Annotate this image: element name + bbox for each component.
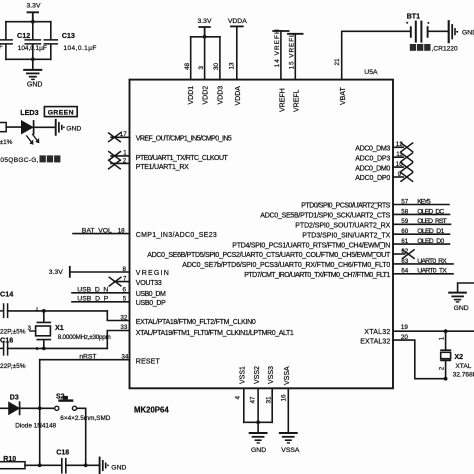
svg-text:34: 34 (121, 353, 129, 360)
svg-text:57: 57 (401, 198, 409, 205)
LED LED3 (20, 108, 39, 145)
svg-text:VREGIN: VREGIN (136, 270, 169, 277)
wire (20, 407, 55, 409)
value 0805QBGC-G (cut at left edge) (0, 155, 60, 164)
node: crystal bottom junction (42, 347, 46, 351)
pin 4 VSS1 (235, 366, 247, 422)
pin 16 VSSA (281, 366, 292, 432)
svg-text:USB0_DP: USB0_DP (136, 300, 166, 307)
svg-text:VDD2: VDD2 (203, 86, 210, 105)
svg-text:30: 30 (213, 62, 220, 70)
pin 6 USB0_DM (123, 287, 166, 298)
svg-text:,CR1220: ,CR1220 (432, 45, 458, 52)
svg-text:VSS2: VSS2 (254, 366, 261, 384)
wire (8, 310, 108, 312)
svg-text:31: 31 (266, 396, 273, 404)
power 3.3V (top-left) (27, 2, 41, 21)
pin 17 VREF_OUT (no connect) (109, 131, 232, 143)
svg-text:62: 62 (401, 248, 409, 255)
svg-text:PTE0/UART1_TX/RTC_CLKOUT: PTE0/UART1_TX/RTC_CLKOUT (136, 155, 229, 162)
wire: bottom rail (6, 58, 51, 60)
svg-text:60: 60 (401, 228, 409, 235)
svg-text:18: 18 (118, 227, 126, 234)
svg-text:ADC0_DM3: ADC0_DM3 (355, 146, 390, 153)
svg-text:61: 61 (401, 238, 409, 245)
capacitor C16 (cut at left edge) (0, 336, 26, 371)
svg-text:32.768KHz: 32.768KHz (453, 371, 474, 378)
pin 32 EXTAL (120, 314, 255, 326)
svg-text:CMP1_IN3/ADC0_SE23: CMP1_IN3/ADC0_SE23 (136, 232, 217, 239)
svg-text:ADC0_SE5B/PTD1/SPI0_SCK/UART2_: ADC0_SE5B/PTD1/SPI0_SCK/UART2_CTS (260, 213, 390, 220)
svg-text:BAT_VOL: BAT_VOL (82, 227, 112, 234)
wire (25, 464, 62, 466)
ground GND (right of LED3, sideways) (56, 120, 82, 135)
wire: VSS tie (244, 421, 272, 423)
pin 33 XTAL (120, 324, 293, 337)
pin 9 ADC0_DP0 (no connect) (355, 171, 412, 182)
svg-text:PTD0/SPI0_PCS0/UART2_RTS: PTD0/SPI0_PCS0/UART2_RTS (301, 203, 390, 210)
svg-text:USB0_DM: USB0_DM (136, 291, 166, 298)
svg-text:C16: C16 (0, 336, 13, 345)
ground GND (below VSS2) (250, 433, 267, 454)
pin 13 VDDA (229, 26, 242, 105)
svg-text:10: 10 (396, 161, 404, 168)
svg-text:8: 8 (123, 266, 127, 273)
wire (8, 347, 108, 349)
pin 12 ADC0_DM3 (no connect) (355, 141, 412, 152)
svg-text:2: 2 (440, 366, 446, 370)
pin 1 PTE0 (no connect) (109, 150, 229, 163)
svg-text:VSS1: VSS1 (240, 366, 247, 384)
switch S2 (55, 393, 111, 422)
pin 63 UART0_RX (182, 258, 453, 269)
svg-text:14 VREFH: 14 VREFH (274, 29, 281, 67)
pin 10 ADC0_DM0 (no connect) (355, 161, 412, 172)
svg-text:VREFL: VREFL (294, 89, 301, 112)
net label USB_D_N (72, 287, 130, 294)
pin 18 CMP1_IN3 (118, 227, 217, 238)
svg-text:GND: GND (454, 305, 469, 312)
svg-text:19: 19 (401, 324, 409, 331)
svg-text:USB_D_N: USB_D_N (77, 287, 108, 294)
svg-text:OLED_RST: OLED_RST (417, 218, 447, 225)
svg-text:VSSA: VSSA (284, 366, 291, 385)
svg-text:X1: X1 (55, 323, 64, 332)
svg-text:X2: X2 (454, 352, 463, 361)
pin 61 OLED_D0 (232, 238, 449, 249)
node (444, 329, 448, 333)
power VDDA (228, 18, 247, 27)
net label BAT_VOL (73, 227, 130, 234)
svg-text:1: 1 (36, 346, 39, 351)
svg-text:VBAT: VBAT (340, 87, 347, 105)
svg-text:VDD3: VDD3 (217, 86, 224, 105)
svg-text:VDDA: VDDA (228, 18, 247, 25)
svg-text:104,0.1µF: 104,0.1µF (18, 45, 47, 52)
svg-text:PTD2/SPI0_SOUT/UART2_RX: PTD2/SPI0_SOUT/UART2_RX (295, 223, 390, 230)
svg-text:XTAL32: XTAL32 (364, 329, 390, 336)
svg-text:KEY5: KEY5 (417, 198, 431, 205)
svg-text:VOUT33: VOUT33 (136, 280, 162, 287)
svg-text:21: 21 (334, 58, 341, 66)
svg-text:3.3V: 3.3V (198, 18, 212, 25)
svg-text:1: 1 (440, 336, 446, 340)
diode D3 1N4148 (0, 394, 57, 429)
svg-text:15 VREFL: 15 VREFL (288, 33, 295, 69)
capacitor C13 (44, 22, 96, 60)
ground GND (bottom-left, sideways) (100, 458, 127, 474)
IC U5A MK20P64 body (130, 69, 394, 415)
pin 30 VDD3 (213, 37, 225, 105)
node: crystal top junction (42, 309, 46, 313)
svg-text:104,0.1µF: 104,0.1µF (63, 45, 96, 52)
svg-text:GREEN: GREEN (48, 110, 74, 117)
svg-text:ADC0_SE6B/PTD5/SPI0_PCS2/UART0: ADC0_SE6B/PTD5/SPI0_PCS2/UART0_CTS/UART0… (147, 252, 391, 259)
svg-text:XTAL/PTA19/FTM1_FLT0/FTM_CLKIN: XTAL/PTA19/FTM1_FLT0/FTM_CLKIN1/LPTMR0_A… (136, 330, 294, 337)
net label nRST (40, 353, 130, 360)
pin 7 VOUT33 (no connect) (109, 275, 162, 286)
svg-text:16: 16 (281, 394, 288, 402)
svg-text:OLED_DC: OLED_DC (417, 208, 444, 215)
svg-text:3: 3 (198, 66, 205, 70)
svg-text:8.0000MHz,±30ppm: 8.0000MHz,±30ppm (58, 334, 111, 341)
svg-text:EXTAL32: EXTAL32 (360, 339, 390, 346)
svg-text:1: 1 (123, 150, 127, 157)
svg-text:11: 11 (396, 151, 403, 158)
svg-text:C14: C14 (0, 289, 13, 298)
crystal X2 32.768kHz (440, 331, 474, 379)
svg-text:D3: D3 (10, 394, 19, 401)
svg-text:RESET: RESET (136, 358, 161, 365)
resistor (cut at left edge, LED series) (0, 123, 13, 146)
svg-text:20: 20 (401, 334, 409, 341)
svg-text:VSS3: VSS3 (268, 366, 275, 384)
svg-text:VSSA: VSSA (281, 447, 300, 454)
wire (66, 464, 99, 466)
wire: switch to C18/GND net (77, 408, 86, 465)
svg-text:47: 47 (250, 396, 257, 404)
svg-text:22P,±5%: 22P,±5% (0, 363, 26, 370)
pin 11 ADC0_DP3 (no connect) (355, 151, 412, 162)
svg-text:3.3V: 3.3V (49, 269, 63, 276)
pin 64 UART0_TX (244, 268, 453, 279)
svg-text:C12: C12 (17, 31, 30, 40)
wire: off-page to GND (right) (458, 283, 474, 292)
svg-text:3.3V: 3.3V (27, 2, 41, 9)
wire: VDD rail (191, 36, 220, 38)
svg-text:LED3: LED3 (20, 108, 38, 117)
pin 19 XTAL32 (364, 324, 474, 336)
svg-text:33: 33 (120, 324, 128, 331)
pin 14 VREFH (273, 29, 288, 112)
node (203, 35, 207, 39)
wire: nRST vertical (39, 360, 41, 466)
node (444, 377, 448, 381)
pin 21 VBAT wire to battery (334, 31, 410, 105)
capacitor (cut at left edge) (0, 22, 12, 60)
svg-text:2: 2 (123, 158, 127, 165)
svg-text:OLED_D1: OLED_D1 (417, 228, 444, 235)
svg-text:Diode 1N4148: Diode 1N4148 (15, 422, 56, 429)
ground GND (right, below pin 64) (449, 293, 469, 312)
crystal X1 8MHz (28, 306, 111, 351)
resistor R10 (cut at left edge) (0, 456, 25, 469)
svg-text:4: 4 (235, 396, 242, 400)
wire (70, 271, 130, 273)
capacitor C18 (56, 450, 69, 473)
capacitor C14 (cut at left edge) (0, 289, 26, 335)
pin 15 VREFL (288, 33, 303, 112)
svg-text:UART0_RX: UART0_RX (417, 258, 447, 265)
svg-text:7: 7 (123, 275, 127, 282)
pin 47 VSS2 (250, 366, 261, 432)
pin 20 EXTAL32 (360, 334, 445, 379)
svg-text:PTD4/SPI0_PCS1/UART0_RTS/FTM0_: PTD4/SPI0_PCS1/UART0_RTS/FTM0_CH4/EWM_IN (232, 242, 390, 249)
pin 3 VDD2 (198, 37, 210, 105)
svg-text:GND: GND (111, 465, 126, 472)
pin 60 OLED_D1 (302, 228, 449, 239)
wire: crystal bottom to pin 33 (107, 331, 129, 349)
svg-text:UART0_TX: UART0_TX (417, 268, 447, 275)
svg-text:VREFH: VREFH (279, 88, 286, 112)
svg-text:59: 59 (401, 218, 409, 225)
svg-text:GND: GND (27, 81, 43, 88)
svg-text:PTD7/CMT_IRO/UART0_TX/FTM0_CH7: PTD7/CMT_IRO/UART0_TX/FTM0_CH7/FTM0_FLT1 (244, 272, 390, 279)
wire: top rail (6, 21, 51, 23)
capacitor C12 (17, 22, 47, 60)
svg-text:nRST: nRST (79, 353, 96, 360)
svg-text:OLED_D0: OLED_D0 (417, 238, 444, 245)
svg-text:GND: GND (251, 447, 266, 454)
ground GND (below C12) (24, 59, 42, 88)
svg-text:17: 17 (120, 131, 128, 138)
svg-text:58: 58 (401, 208, 409, 215)
svg-text:13: 13 (229, 62, 236, 70)
svg-text:XTAL: XTAL (455, 363, 471, 370)
svg-text:C18: C18 (56, 450, 69, 457)
battery BT1 CR1220 (406, 11, 458, 52)
svg-text:ADC0_DP0: ADC0_DP0 (355, 175, 390, 182)
pin 31 VSS3 (266, 366, 275, 422)
svg-text:VREF_OUT/CMP1_IN5/CMP0_IN5: VREF_OUT/CMP1_IN5/CMP0_IN5 (136, 136, 232, 143)
svg-text:ADC0_DM0: ADC0_DM0 (355, 165, 390, 172)
svg-text:MK20P64: MK20P64 (134, 405, 169, 414)
svg-text:GND: GND (462, 30, 474, 37)
svg-text:U5A: U5A (364, 69, 378, 76)
pin 62 (no connect) (147, 248, 414, 259)
net label USB_D_P (72, 296, 130, 303)
svg-text:6: 6 (123, 287, 127, 294)
pin 59 OLED_RST (295, 218, 450, 229)
svg-text:PTD3/SPI0_SIN/UART2_TX: PTD3/SPI0_SIN/UART2_TX (302, 232, 390, 239)
svg-text:12: 12 (396, 141, 404, 148)
svg-text:805QBGC-G,: 805QBGC-G, (0, 157, 39, 164)
svg-text:EXTAL/PTA18/FTM0_FLT2/FTM_CLKI: EXTAL/PTA18/FTM0_FLT2/FTM_CLKIN0 (136, 319, 256, 326)
svg-text:BT1: BT1 (407, 11, 421, 20)
node: bottom rail junction (31, 57, 35, 61)
svg-text:±1%: ±1% (0, 139, 13, 146)
svg-text:ADC0_SE7b/PTD6/SPI0_PCS3/UART0: ADC0_SE7b/PTD6/SPI0_PCS3/UART0_RX/FTM0_C… (182, 262, 390, 269)
pin 34 RESET (121, 353, 160, 365)
pin 57 KEY5 (301, 198, 449, 209)
pin 2 PTE1 (no connect) (109, 158, 190, 171)
svg-text:22P,±5%: 22P,±5% (0, 328, 26, 335)
svg-text:C13: C13 (62, 31, 75, 40)
label GREEN (boxed) (44, 107, 77, 117)
ground GND (right of battery, sideways) (449, 21, 474, 42)
power VSSA (ground style) (280, 433, 300, 454)
svg-text:VDDA: VDDA (235, 86, 242, 106)
pin 5 USB0_DP (123, 296, 166, 307)
wire (34, 126, 54, 128)
svg-text:32: 32 (120, 314, 128, 321)
node (256, 420, 260, 424)
svg-text:2: 2 (36, 306, 39, 311)
wire (429, 30, 448, 32)
pin 58 OLED_DC (260, 208, 449, 219)
svg-text:PTE1/UART1_RX: PTE1/UART1_RX (136, 164, 189, 171)
pin 48 VDD1 (184, 37, 195, 105)
svg-text:VDD1: VDD1 (188, 86, 195, 105)
svg-text:63: 63 (401, 258, 409, 265)
svg-text:9: 9 (398, 171, 402, 178)
svg-text:5: 5 (123, 296, 127, 303)
node: reset/diode junction (38, 406, 42, 410)
wire: crystal top to pin 32 (107, 311, 129, 321)
svg-text:GND: GND (66, 125, 81, 132)
svg-text:64: 64 (401, 268, 409, 275)
svg-text:USB_D_P: USB_D_P (77, 296, 108, 303)
svg-text:48: 48 (184, 62, 191, 70)
svg-text:ADC0_DP3: ADC0_DP3 (355, 155, 390, 162)
pin 8 VREGIN (123, 266, 169, 277)
svg-text:F: F (0, 44, 3, 50)
node: 3.3V rail junction (31, 20, 35, 24)
power 3.3V (at VREGIN pin 8) (49, 267, 70, 277)
power 3.3V (VDD rail above IC) (198, 18, 212, 37)
node (84, 463, 88, 467)
node: R10/C18 junction (38, 463, 42, 467)
wire (6, 126, 21, 128)
